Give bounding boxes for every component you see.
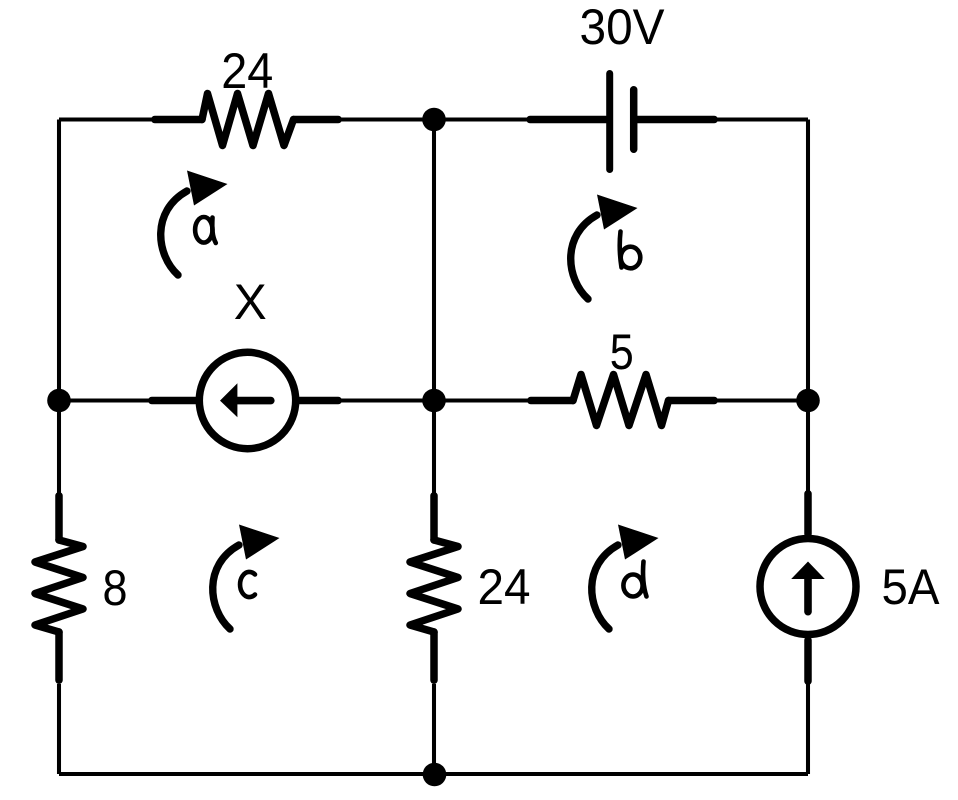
wire: top wire middle segment (R1 to battery): [291, 117, 606, 121]
current source I1 5A circle: [760, 539, 856, 635]
mesh current arrow b: [571, 195, 638, 300]
wire: right rail (mid-right node to 5A source): [806, 401, 810, 496]
resistor R1 24 (top-left, horizontal): [202, 94, 294, 146]
label mesh c: [240, 572, 255, 597]
mesh current arrow d: [592, 525, 659, 630]
wire: current source X right thick lead: [299, 397, 338, 405]
resistor R3 8 (bottom-left, vertical): [35, 540, 83, 632]
current source I1 arrow (pointing up): [804, 577, 812, 612]
label mesh a: [195, 217, 216, 243]
resistor R4 24 (bottom-middle, vertical): [410, 540, 458, 632]
wire: left rail upper (top-left corner to mid-left node): [57, 120, 61, 401]
wire: 5A source top thick lead: [804, 494, 812, 534]
wire: right rail bottom (5A to bottom-right corner): [806, 639, 810, 774]
wire: top wire left segment (node to R1): [59, 117, 205, 121]
svg-text:8: 8: [103, 560, 128, 616]
wire: top wire right segment (battery to top-right corner): [637, 117, 808, 121]
wire: battery left thick lead: [530, 116, 606, 124]
wire: mid wire center-left segment (X to center node): [299, 398, 434, 402]
resistor R2 5 (mid-right, horizontal): [573, 375, 669, 426]
svg-text:30V: 30V: [580, 0, 666, 55]
svg-text:24: 24: [221, 43, 273, 99]
mesh current arrow a: [161, 171, 228, 276]
wire: R4 top thick lead: [430, 496, 438, 540]
wire: R1 left thick lead: [155, 116, 202, 124]
wire: 5A source bottom thick lead: [804, 640, 812, 681]
wire: R4 bottom thick lead: [430, 632, 438, 680]
wire: R1 right thick lead: [294, 116, 339, 124]
wire: battery right thick lead: [637, 116, 714, 124]
wire: left rail bottom part (R3 to bottom-left corner): [57, 684, 61, 774]
wire: right rail upper (top-right corner to mid-right node): [806, 120, 810, 401]
svg-text:X: X: [234, 274, 267, 330]
battery V1 30V long plate: [606, 74, 613, 170]
current source X circle: [199, 352, 295, 448]
wire: bottom wire: [59, 772, 808, 776]
wire: current source X left thick lead: [152, 397, 196, 405]
wire: left rail lower upper part (mid-left node to R3): [57, 401, 61, 501]
label mesh b: [620, 232, 641, 269]
svg-text:5A: 5A: [882, 559, 941, 615]
wire: R3 bottom thick lead: [55, 632, 63, 680]
node: mid-center junction: [422, 389, 446, 413]
wire: mid wire right segment (R2 to mid-right node): [668, 398, 808, 402]
wire: center rail lower upper part (mid node to R4): [432, 401, 436, 501]
wire: mid wire center-right segment (center node to R2): [434, 398, 575, 402]
wire: center rail bottom part (R4 to bottom node): [432, 684, 436, 774]
node: top-center junction: [422, 108, 446, 132]
node: mid-left junction: [47, 389, 71, 413]
wire: R3 top thick lead: [55, 496, 63, 540]
node: mid-right junction: [796, 389, 820, 413]
wire: R2 left thick lead: [531, 397, 573, 405]
label mesh d: [623, 562, 646, 597]
mesh current arrow c: [213, 525, 280, 630]
battery V1 30V short plate: [630, 90, 638, 150]
svg-text:24: 24: [478, 559, 531, 615]
wire: center rail upper (top node to mid node): [432, 120, 436, 401]
node: bottom-center junction: [423, 763, 447, 787]
current source X arrow (pointing left): [238, 397, 271, 405]
wire: mid wire left segment: [59, 398, 196, 402]
wire: R2 right thick lead: [669, 397, 715, 405]
svg-text:5: 5: [610, 324, 634, 380]
